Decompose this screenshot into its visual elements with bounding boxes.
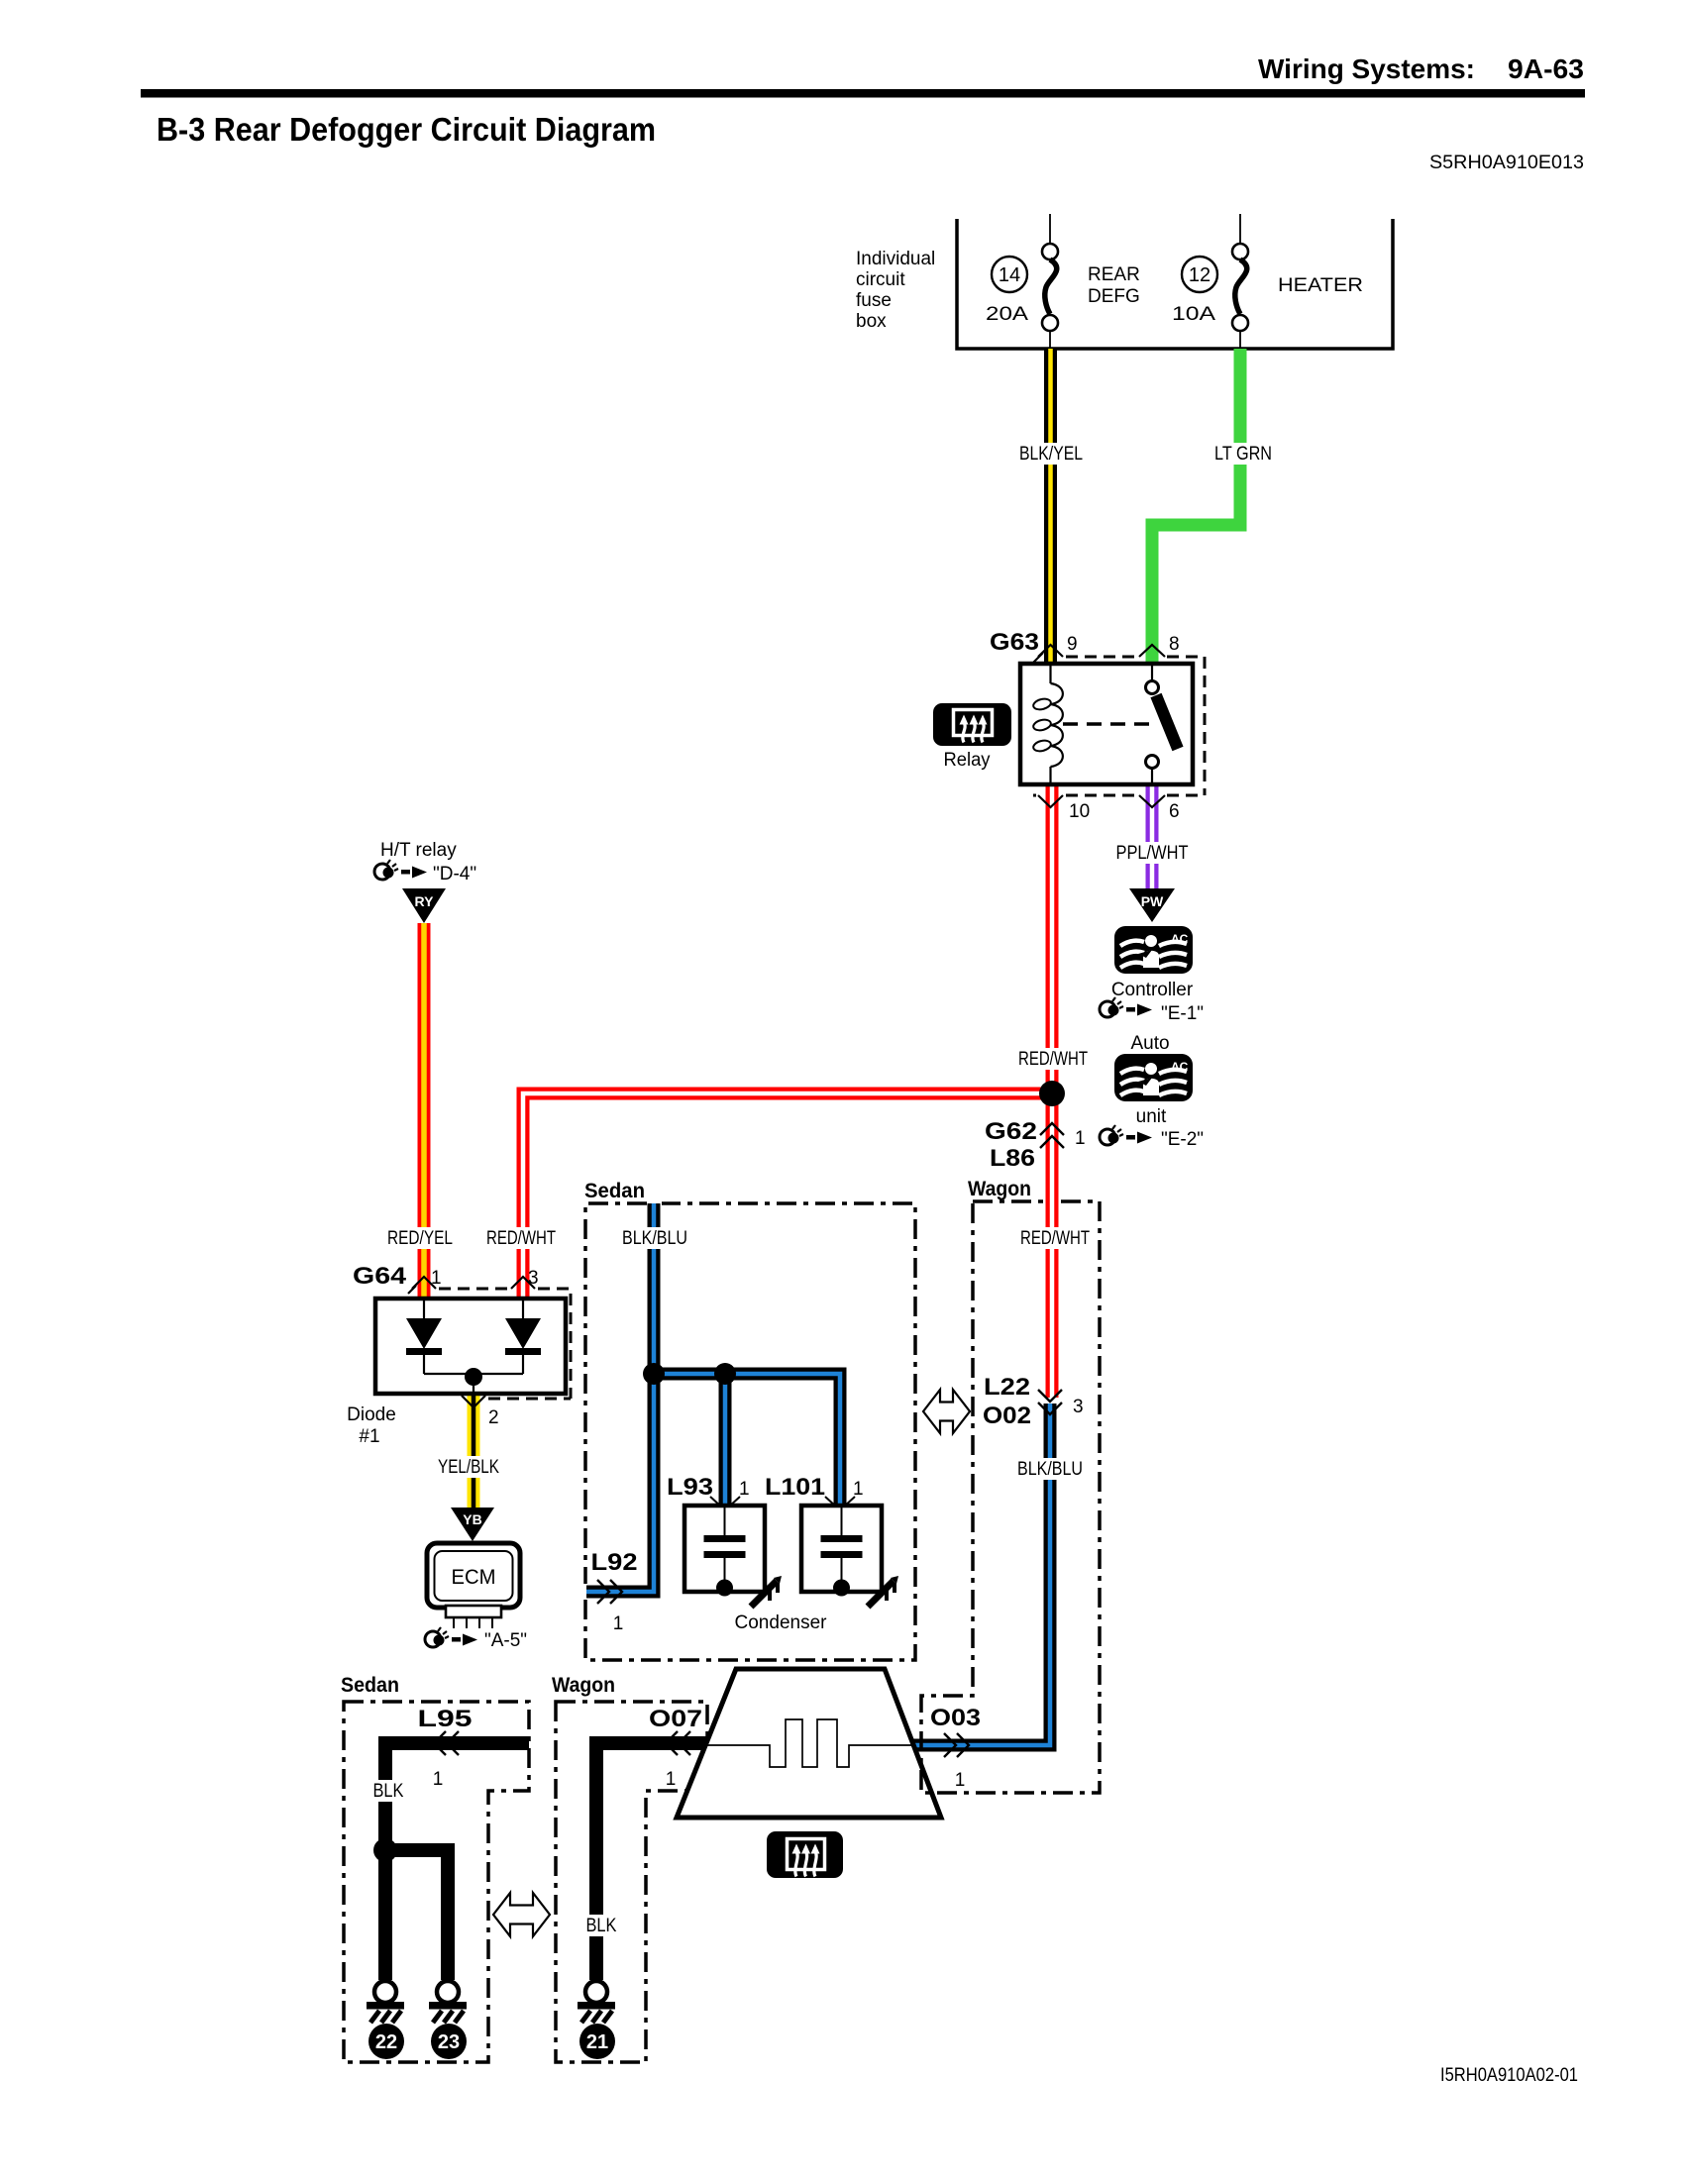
svg-text:I5RH0A910A02-01: I5RH0A910A02-01 — [1440, 2065, 1578, 2086]
svg-text:L22: L22 — [984, 1374, 1030, 1401]
svg-text:"D-4": "D-4" — [433, 864, 476, 884]
svg-text:YEL/BLK: YEL/BLK — [438, 1457, 499, 1478]
svg-text:14: 14 — [999, 264, 1020, 286]
svg-text:1: 1 — [739, 1479, 750, 1500]
svg-text:L92: L92 — [591, 1549, 638, 1576]
svg-text:Sedan: Sedan — [341, 1674, 399, 1697]
svg-text:3: 3 — [1073, 1397, 1084, 1417]
svg-text:O07: O07 — [649, 1706, 702, 1732]
svg-text:RED/YEL: RED/YEL — [387, 1228, 453, 1249]
svg-text:1: 1 — [666, 1769, 677, 1790]
svg-text:fuse: fuse — [856, 290, 892, 311]
svg-text:PW: PW — [1141, 893, 1164, 909]
svg-text:L101: L101 — [765, 1474, 825, 1501]
svg-text:8: 8 — [1169, 634, 1180, 655]
svg-text:1: 1 — [955, 1770, 966, 1791]
svg-text:10A: 10A — [1172, 304, 1215, 325]
svg-text:Condenser: Condenser — [735, 1612, 828, 1633]
svg-text:YB: YB — [463, 1511, 481, 1527]
svg-text:2: 2 — [488, 1407, 499, 1428]
svg-text:3: 3 — [528, 1268, 539, 1289]
svg-text:Diode: Diode — [347, 1404, 396, 1425]
svg-text:21: 21 — [586, 2031, 608, 2053]
svg-text:REAR: REAR — [1088, 264, 1140, 285]
svg-text:Wiring Systems:: Wiring Systems: — [1258, 53, 1475, 84]
svg-text:"A-5": "A-5" — [484, 1630, 527, 1651]
svg-text:G63: G63 — [990, 629, 1039, 656]
svg-text:1: 1 — [431, 1268, 442, 1289]
svg-text:"E-1": "E-1" — [1161, 1003, 1204, 1024]
svg-text:BLK/YEL: BLK/YEL — [1019, 444, 1083, 465]
svg-text:G64: G64 — [353, 1263, 407, 1290]
svg-text:10: 10 — [1069, 801, 1090, 822]
svg-text:Wagon: Wagon — [968, 1178, 1031, 1200]
svg-text:9: 9 — [1067, 634, 1078, 655]
svg-text:G62: G62 — [985, 1118, 1037, 1145]
svg-text:RED/WHT: RED/WHT — [486, 1228, 556, 1249]
svg-text:1: 1 — [1075, 1128, 1086, 1149]
svg-text:unit: unit — [1136, 1106, 1167, 1127]
svg-text:12: 12 — [1189, 264, 1210, 286]
svg-text:HEATER: HEATER — [1278, 275, 1363, 296]
svg-text:PPL/WHT: PPL/WHT — [1116, 843, 1189, 864]
svg-text:box: box — [856, 311, 887, 332]
svg-text:6: 6 — [1169, 801, 1180, 822]
svg-text:BLK: BLK — [586, 1916, 617, 1936]
svg-text:B-3 Rear Defogger Circuit Diag: B-3 Rear Defogger Circuit Diagram — [157, 111, 656, 148]
svg-text:BLK/BLU: BLK/BLU — [1017, 1459, 1083, 1480]
svg-text:L95: L95 — [418, 1706, 473, 1732]
svg-text:20A: 20A — [986, 304, 1028, 325]
svg-text:1: 1 — [853, 1479, 864, 1500]
svg-text:Relay: Relay — [944, 750, 991, 771]
svg-text:O02: O02 — [983, 1403, 1031, 1429]
svg-text:9A-63: 9A-63 — [1508, 53, 1584, 84]
svg-text:ECM: ECM — [452, 1566, 496, 1589]
svg-text:H/T relay: H/T relay — [380, 840, 457, 861]
svg-text:BLK: BLK — [373, 1781, 404, 1802]
svg-text:circuit: circuit — [856, 269, 905, 290]
svg-text:1: 1 — [613, 1613, 624, 1634]
svg-text:Controller: Controller — [1111, 980, 1194, 1000]
svg-text:AC: AC — [1171, 932, 1189, 946]
svg-text:"E-2": "E-2" — [1161, 1129, 1204, 1150]
svg-text:#1: #1 — [359, 1426, 379, 1447]
svg-text:O03: O03 — [930, 1705, 981, 1731]
svg-text:Sedan: Sedan — [584, 1180, 645, 1202]
svg-text:RED/WHT: RED/WHT — [1018, 1049, 1088, 1070]
svg-text:L86: L86 — [990, 1145, 1035, 1172]
svg-text:Individual: Individual — [856, 249, 935, 269]
svg-text:AC: AC — [1171, 1060, 1189, 1074]
svg-text:BLK/BLU: BLK/BLU — [622, 1228, 687, 1249]
svg-text:DEFG: DEFG — [1088, 286, 1140, 307]
svg-text:S5RH0A910E013: S5RH0A910E013 — [1429, 153, 1584, 173]
svg-text:22: 22 — [375, 2031, 397, 2053]
svg-text:RED/WHT: RED/WHT — [1020, 1228, 1090, 1249]
svg-text:23: 23 — [438, 2031, 460, 2053]
svg-text:Wagon: Wagon — [552, 1674, 615, 1697]
svg-text:RY: RY — [415, 893, 435, 909]
svg-text:Auto: Auto — [1130, 1033, 1169, 1054]
svg-text:L93: L93 — [667, 1474, 713, 1501]
svg-text:LT GRN: LT GRN — [1214, 444, 1272, 465]
svg-text:1: 1 — [433, 1769, 444, 1790]
